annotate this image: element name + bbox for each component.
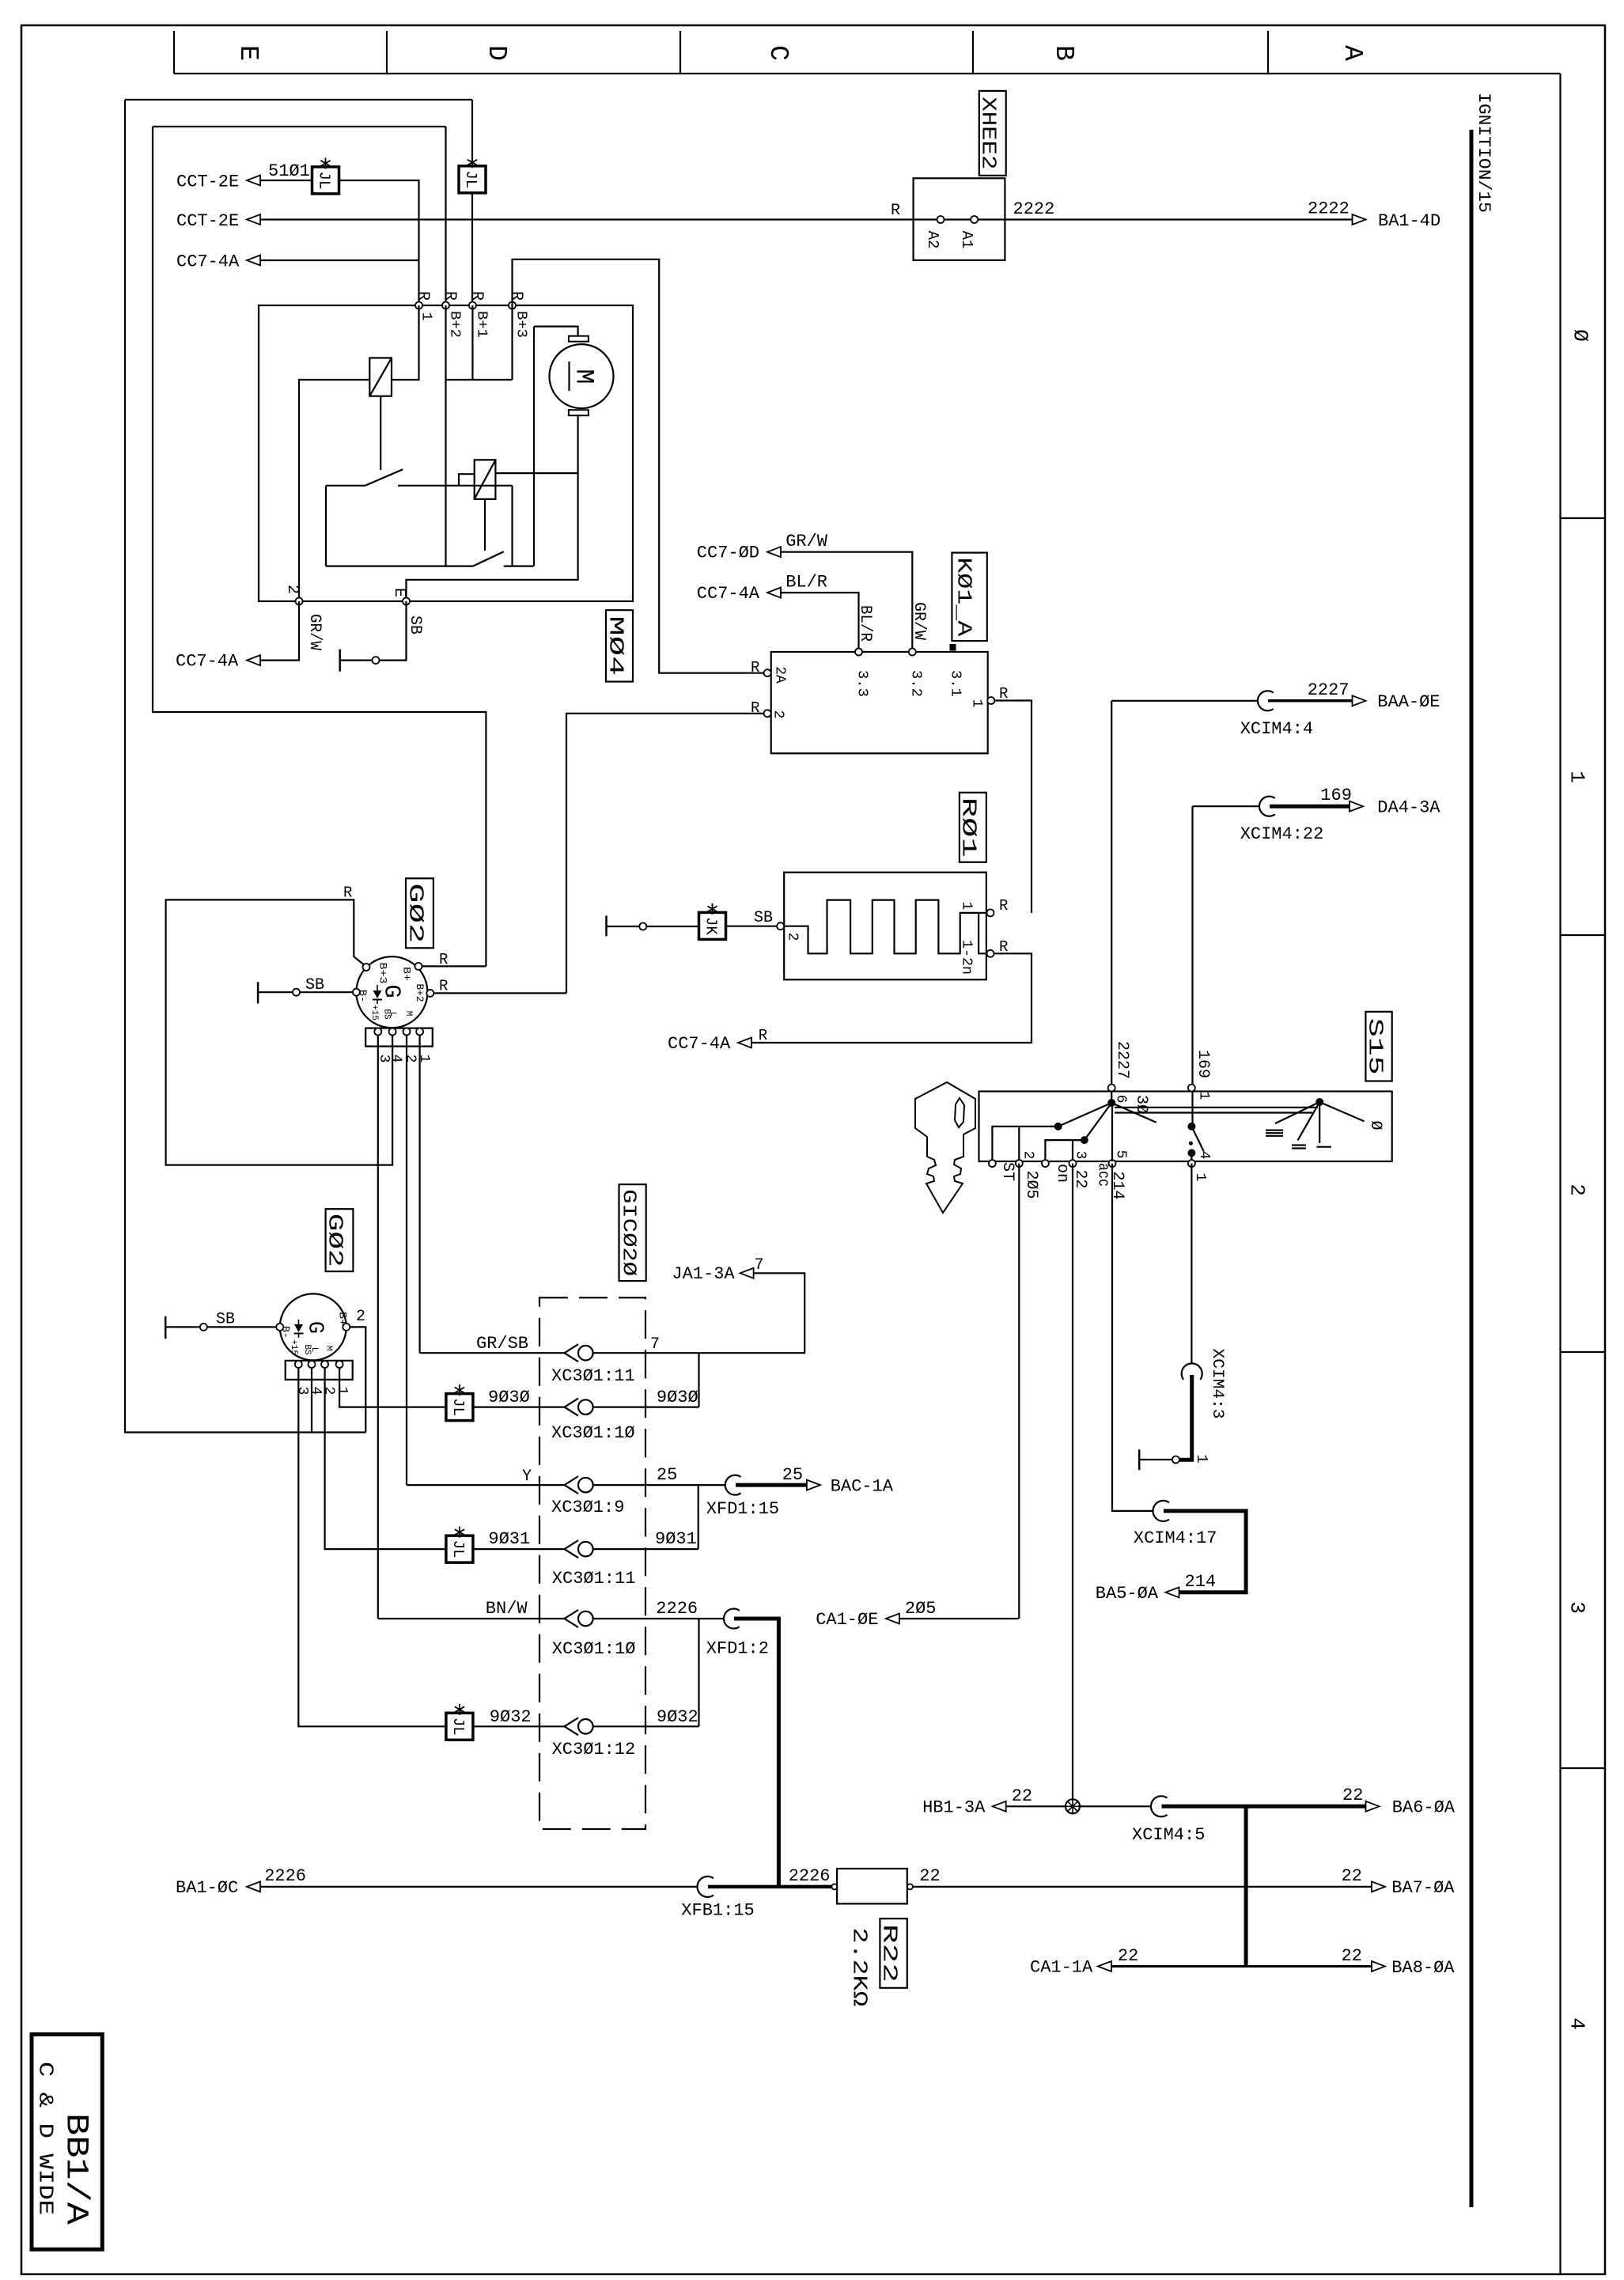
S15 pin 4 <box>1188 1160 1195 1167</box>
svg-text:ST: ST <box>998 1162 1016 1181</box>
S15 position ray 0 <box>1319 1102 1364 1121</box>
svg-text:CA1-ØE: CA1-ØE <box>816 1610 878 1630</box>
svg-text:M: M <box>403 1011 413 1017</box>
relay K01_A label box <box>952 553 986 642</box>
K01_A pin 2 <box>764 710 771 717</box>
svg-text:2222: 2222 <box>1308 199 1350 219</box>
wire 2226 out to XFD1:2 <box>593 1618 724 1619</box>
svg-text:2: 2 <box>356 1308 365 1326</box>
svg-text:XFD1:15: XFD1:15 <box>706 1499 779 1519</box>
svg-text:BA7-ØA: BA7-ØA <box>1391 1878 1455 1898</box>
svg-text:2226: 2226 <box>264 1866 306 1886</box>
svg-text:4: 4 <box>1196 1151 1212 1160</box>
svg-text:JL: JL <box>316 171 333 189</box>
svg-text:B+: B+ <box>400 967 412 981</box>
connector XCIM4:22 <box>1259 797 1275 816</box>
G02 lower pin1 wire to 9030 <box>339 1368 446 1407</box>
svg-text:22: 22 <box>1342 1866 1362 1886</box>
svg-text:B+2: B+2 <box>447 311 463 338</box>
arrow BA1-4D <box>1353 214 1366 225</box>
wire JL1 out to node R1 <box>339 180 419 305</box>
svg-text:JK: JK <box>702 917 720 935</box>
junction crossed circle <box>1066 1799 1080 1813</box>
wire 9030 out <box>593 1406 699 1407</box>
connector XCIM4:5 <box>1151 1796 1168 1816</box>
wire box2: B+2 feed loop <box>445 127 446 305</box>
alternator G02 upper label box <box>406 878 433 948</box>
svg-text:SB: SB <box>754 909 773 927</box>
S15 wiper ray to ST contact <box>1058 1103 1112 1127</box>
wire BN/W into connector <box>378 1618 565 1619</box>
wire 214 down from S15 to XCIM4:17 <box>1112 1164 1153 1511</box>
wire 9031 junction up to 25 wire <box>698 1485 699 1549</box>
G02 lower SB ground wire <box>276 1324 283 1331</box>
ground bar at G02 lower <box>165 1316 167 1339</box>
title block BB1/A <box>32 2035 102 2250</box>
bus IGNITION/15 thick line <box>1470 130 1474 2207</box>
svg-text:M: M <box>569 369 598 384</box>
svg-text:XCIM4:22: XCIM4:22 <box>1240 824 1324 844</box>
svg-text:+15: +15 <box>369 1005 379 1021</box>
wire 9031 out <box>593 1548 698 1550</box>
svg-text:S15: S15 <box>1364 1018 1387 1075</box>
svg-text:2Ø5: 2Ø5 <box>905 1599 937 1619</box>
K01_A pin 3.3 <box>855 649 862 656</box>
R01 pin 1-2n <box>987 950 994 957</box>
connector XHEE2 body <box>914 178 1005 260</box>
svg-text:BL/R: BL/R <box>856 605 874 642</box>
svg-text:IGNITION/15: IGNITION/15 <box>1474 93 1493 213</box>
wire 2222 to BA1-4D <box>1005 218 1352 220</box>
svg-text:XFB1:15: XFB1:15 <box>681 1901 754 1921</box>
motor M circle <box>550 344 614 408</box>
S15 position ray II <box>1298 1102 1320 1140</box>
wire 2227 down from XCIM4:4 to pin 6 <box>1111 701 1112 1103</box>
wire coil to node 2 <box>299 380 369 601</box>
switch S15 label box <box>1365 1012 1391 1081</box>
right row strip <box>1559 74 1561 2274</box>
svg-text:M: M <box>324 1346 333 1351</box>
svg-text:XCIM4:5: XCIM4:5 <box>1132 1825 1205 1845</box>
svg-text:2: 2 <box>770 710 786 719</box>
svg-text:BAC-1A: BAC-1A <box>831 1477 894 1497</box>
G02 lower pin block <box>286 1361 353 1380</box>
wire K01 pin1 to R01 pin1 <box>994 701 1032 913</box>
svg-text:7: 7 <box>755 1256 764 1274</box>
wire 22 to BA7-0A <box>913 1886 1372 1888</box>
M04 node 2 <box>296 598 303 605</box>
svg-text:9Ø32: 9Ø32 <box>657 1707 698 1727</box>
svg-text:CC7-4A: CC7-4A <box>176 652 239 672</box>
svg-text:25: 25 <box>782 1465 803 1485</box>
svg-text:+15: +15 <box>289 1339 298 1355</box>
svg-text:22: 22 <box>919 1866 940 1886</box>
svg-text:DA4-3A: DA4-3A <box>1377 798 1440 818</box>
S15 position ray III <box>1275 1102 1319 1123</box>
svg-text:R: R <box>414 291 432 301</box>
wire 9031 JL to connector <box>473 1548 565 1550</box>
ignition key symbol <box>915 1082 975 1213</box>
switch S2 blade <box>473 551 504 566</box>
svg-text:2: 2 <box>403 1055 418 1063</box>
wire 214 bold to BA5-0A <box>1164 1511 1246 1593</box>
resistor R22 label box <box>880 1918 907 1988</box>
S15 pin 6 <box>1108 1085 1115 1092</box>
wire bold XFB1:15 to R22 <box>708 1885 832 1889</box>
ground bar at G02 upper <box>257 982 259 1003</box>
coil K1 actuator stem <box>380 396 381 470</box>
svg-text:C & D WIDE: C & D WIDE <box>34 2062 58 2215</box>
svg-text:BAA-ØE: BAA-ØE <box>1377 692 1440 712</box>
wire K01 pin2 to G02 B+2 <box>566 714 764 994</box>
resistor R22 body <box>831 1884 837 1889</box>
G02 upper pin1 wire to GR/SB <box>418 1036 420 1354</box>
svg-text:XCIM4:3: XCIM4:3 <box>1208 1349 1226 1419</box>
svg-text:Ø: Ø <box>1366 1120 1384 1130</box>
svg-text:CCT-2E: CCT-2E <box>176 172 239 192</box>
K01_A pin 2A <box>764 669 771 676</box>
svg-text:5: 5 <box>1113 1150 1129 1159</box>
fuse JL 9030 <box>446 1394 473 1421</box>
svg-text:169: 169 <box>1320 786 1352 805</box>
K01_A label attach mark <box>950 645 956 651</box>
S15 ST contact wire <box>992 1127 1058 1161</box>
svg-text:R: R <box>343 884 352 902</box>
wire 22 to BA8-0A <box>1111 1965 1372 1968</box>
fuse JL2 <box>459 166 486 193</box>
wire GR/SB into connector <box>420 1352 565 1354</box>
M04 B+2 column <box>445 305 446 566</box>
K01_A pin 1 <box>987 697 994 704</box>
connector XFD1:2 <box>724 1609 740 1629</box>
wire 2226 bold down to R22 line <box>734 1619 778 1887</box>
arrow DA4-3A <box>1350 801 1363 812</box>
svg-text:1: 1 <box>1192 1173 1208 1182</box>
wire motor bottom to node E <box>407 415 578 601</box>
wire CCT-2E 1 to fuse JL1 <box>247 176 260 186</box>
M04 node R1 <box>415 302 422 309</box>
motor brush bottom <box>569 410 589 415</box>
svg-text:E: E <box>233 45 263 61</box>
S15 205 contact drop <box>1018 1127 1020 1161</box>
svg-text:22: 22 <box>1342 1786 1363 1805</box>
component M04 box <box>259 305 633 601</box>
arrow BAC-1A <box>807 1480 820 1490</box>
svg-text:1: 1 <box>959 902 975 911</box>
instrument group GIC020 dashed box <box>539 1297 645 1829</box>
svg-text:R: R <box>439 951 448 968</box>
G02 lower pin3 wire to 9032 <box>298 1368 445 1726</box>
svg-text:BB1/A: BB1/A <box>58 2113 93 2225</box>
svg-text:GR/SB: GR/SB <box>476 1334 528 1354</box>
svg-text:22: 22 <box>1118 1946 1138 1966</box>
svg-text:2227: 2227 <box>1113 1041 1131 1079</box>
G02 pin B- to SB ground <box>353 989 360 996</box>
R01 pin 2 <box>777 922 784 930</box>
svg-text:L: L <box>309 1347 319 1353</box>
svg-text:R: R <box>999 897 1008 915</box>
svg-text:BL/R: BL/R <box>786 573 827 593</box>
wire CC7-4A 1 to node R1 column <box>247 256 260 266</box>
ground bar at JK <box>605 915 608 936</box>
svg-text:BA5-ØA: BA5-ØA <box>1096 1584 1159 1604</box>
XHEE2 pin A1 <box>971 216 978 223</box>
svg-text:BN/W: BN/W <box>486 1599 528 1619</box>
svg-text:2: 2 <box>1565 1184 1589 1196</box>
svg-text:9Ø31: 9Ø31 <box>655 1529 697 1549</box>
svg-text:2222: 2222 <box>1013 199 1055 219</box>
connector XC301:11 9031 <box>565 1540 579 1558</box>
R01 tap link <box>979 913 986 953</box>
S15 mechanical link lines <box>1115 1107 1318 1108</box>
G02 pin B+ wire <box>415 963 422 970</box>
G02 lower diode symbol <box>294 1324 303 1332</box>
svg-text:XC3Ø1:12: XC3Ø1:12 <box>552 1740 636 1759</box>
svg-text:4: 4 <box>1565 2017 1589 2030</box>
coil K2 actuator stem <box>484 499 486 551</box>
svg-text:3.3: 3.3 <box>854 670 870 697</box>
svg-text:1: 1 <box>1193 1454 1210 1463</box>
svg-text:2Ø5: 2Ø5 <box>1022 1171 1040 1199</box>
M04 node E <box>403 598 410 605</box>
svg-text:9Ø32: 9Ø32 <box>490 1707 532 1727</box>
svg-text:BA1-4D: BA1-4D <box>1378 211 1440 231</box>
wire 1 down to XCIM4:3 <box>1191 1164 1192 1364</box>
svg-text:3.1: 3.1 <box>948 670 963 697</box>
resistor R01 body <box>784 873 986 980</box>
fuse JL 9031 <box>446 1536 473 1562</box>
svg-text:XC3Ø1:9: XC3Ø1:9 <box>551 1498 624 1517</box>
GIC020 label box <box>619 1184 646 1281</box>
S15 pin 214 <box>1109 1160 1116 1167</box>
S15 wiper pivot <box>1107 1099 1115 1107</box>
wire 25 bold to BAC-1A <box>736 1483 807 1487</box>
S15 pin 4 contact lower <box>1187 1149 1195 1157</box>
svg-text:25: 25 <box>657 1465 677 1485</box>
wire BL/R to CC7-4A <box>780 593 858 652</box>
svg-text:XC3Ø1:1Ø: XC3Ø1:1Ø <box>552 1639 636 1659</box>
arrow BA7-0A <box>1372 1881 1385 1892</box>
relay K01_A body <box>771 652 988 753</box>
svg-text:2: 2 <box>1020 1151 1036 1160</box>
connector XC301:11 GR/SB <box>565 1344 579 1362</box>
svg-text:2226: 2226 <box>656 1599 698 1619</box>
alternator G02 lower circle <box>280 1293 346 1360</box>
svg-text:CC7-ØD: CC7-ØD <box>697 543 759 563</box>
svg-text:BA6-ØA: BA6-ØA <box>1392 1798 1456 1818</box>
wire 9032 junction up to 2226 wire <box>698 1619 699 1726</box>
K01_A pin 3.2 <box>909 649 916 656</box>
svg-text:3Ø: 3Ø <box>1132 1095 1150 1114</box>
wire 205 from S15 <box>899 1618 1019 1619</box>
fuse JL1 <box>312 167 339 194</box>
wire 2227 to XCIM4:4 <box>1111 700 1258 702</box>
wire 9030 JL to connector <box>473 1406 565 1407</box>
arrow BA5-0A <box>1166 1587 1179 1597</box>
svg-text:R: R <box>891 202 900 220</box>
svg-text:GR/W: GR/W <box>786 532 828 551</box>
svg-text:JL: JL <box>449 1718 467 1736</box>
S15 pin on <box>1042 1160 1049 1167</box>
wire R1 to coil <box>392 305 419 380</box>
svg-text:XC3Ø1:1Ø: XC3Ø1:1Ø <box>551 1423 635 1443</box>
svg-text:R: R <box>441 291 459 301</box>
ground bar at XCIM4:3 <box>1138 1449 1141 1470</box>
connector XFB1:15 <box>697 1877 714 1897</box>
svg-text:22: 22 <box>1071 1169 1089 1188</box>
fuse JK <box>699 912 726 939</box>
M04 node B+1 <box>469 302 476 309</box>
svg-text:GR/W: GR/W <box>305 614 324 650</box>
svg-text:GR/W: GR/W <box>910 602 928 640</box>
svg-text:22: 22 <box>1342 1946 1362 1966</box>
svg-text:A2: A2 <box>924 231 941 249</box>
wire HB1-3A to junction <box>1006 1805 1066 1807</box>
svg-text:JL: JL <box>449 1540 467 1559</box>
connector XCIM4:17 <box>1153 1501 1169 1521</box>
svg-text:G: G <box>379 984 405 998</box>
connector XFD1:15 <box>725 1475 741 1495</box>
svg-text:9Ø31: 9Ø31 <box>488 1529 530 1549</box>
wire XCIM4:3 bold to ground <box>1179 1375 1192 1460</box>
svg-text:MØ4: MØ4 <box>604 615 628 676</box>
svg-text:B+1: B+1 <box>474 311 490 338</box>
svg-text:R: R <box>751 659 759 676</box>
wire junction to XCIM4:5 <box>1080 1805 1152 1807</box>
connector XC301:12 9032 <box>565 1718 579 1735</box>
svg-text:R: R <box>439 978 448 995</box>
svg-text:D: D <box>482 45 511 61</box>
relay coil K1 in M04 <box>369 358 392 396</box>
svg-text:1: 1 <box>334 1387 350 1396</box>
svg-text:214: 214 <box>1185 1572 1217 1592</box>
svg-text:3.2: 3.2 <box>908 670 924 697</box>
wire CCT-2E 2 long feed to XHEE2 <box>247 214 260 225</box>
svg-text:JL: JL <box>449 1398 467 1416</box>
svg-text:169: 169 <box>1194 1050 1212 1078</box>
svg-text:2.2KΩ: 2.2KΩ <box>848 1928 872 2007</box>
svg-text:RØ1: RØ1 <box>957 797 981 858</box>
svg-text:R: R <box>759 1027 767 1044</box>
svg-text:B+2: B+2 <box>414 984 426 1002</box>
switch S2 left contact <box>326 565 473 566</box>
S15 position pivot <box>1315 1098 1323 1106</box>
svg-text:SB: SB <box>216 1311 235 1329</box>
wire node E to ground <box>380 601 407 661</box>
S15 position ray I <box>1319 1102 1320 1143</box>
switch S1 left contact <box>326 485 365 487</box>
svg-text:XHEE2: XHEE2 <box>977 97 1001 169</box>
wire K01 pin 2A to node B+3 <box>513 259 764 673</box>
alternator G02 upper circle <box>356 956 427 1028</box>
wire 22 bold to BA6-0A <box>1162 1805 1366 1808</box>
wire 22 down from S15 to junction <box>1072 1164 1073 1807</box>
svg-text:C: C <box>763 45 793 61</box>
svg-text:9Ø3Ø: 9Ø3Ø <box>657 1388 698 1407</box>
G02 lower pin 2 wire <box>343 1324 350 1331</box>
svg-text:on: on <box>1053 1164 1071 1183</box>
S15 wiper ray to on contact <box>1085 1103 1111 1140</box>
svg-text:CCT-2E: CCT-2E <box>176 211 239 231</box>
wire JK ground <box>646 926 698 927</box>
svg-text:CC7-4A: CC7-4A <box>668 1034 731 1054</box>
svg-text:22: 22 <box>1012 1786 1032 1806</box>
wire 2226 to XFB1:15 <box>260 1886 698 1888</box>
S15 214 column <box>1111 1103 1113 1161</box>
svg-text:XC3Ø1:11: XC3Ø1:11 <box>552 1569 636 1589</box>
svg-text:2: 2 <box>785 933 801 941</box>
svg-text:CA1-1A: CA1-1A <box>1030 1958 1093 1978</box>
wire 9030 junction up to 7 wire <box>698 1353 699 1407</box>
svg-text:B+3: B+3 <box>513 311 529 338</box>
svg-text:A: A <box>1338 45 1367 61</box>
svg-text:GØ2: GØ2 <box>404 883 428 943</box>
svg-text:4: 4 <box>388 1055 403 1063</box>
svg-text:XFD1:2: XFD1:2 <box>706 1639 769 1659</box>
S15 pin ST <box>989 1160 996 1167</box>
wire 22 bold branch down <box>1244 1806 1248 1966</box>
wire 205 down from S15 to CA1-0E <box>1018 1164 1020 1619</box>
arrow BAA-0E <box>1353 695 1366 706</box>
svg-text:SB: SB <box>305 976 324 994</box>
svg-text:7: 7 <box>650 1335 660 1354</box>
svg-text:2A: 2A <box>772 666 788 684</box>
R01 heater element <box>784 900 986 954</box>
arrow BA8-0A <box>1372 1961 1385 1971</box>
wire motor top <box>534 327 578 336</box>
svg-text:Y: Y <box>522 1468 532 1486</box>
M04 node B+2 <box>442 302 449 309</box>
connector XC301:9 Y <box>565 1476 579 1494</box>
svg-text:R: R <box>468 291 486 301</box>
svg-text:JL: JL <box>462 170 479 188</box>
svg-text:CC7-4A: CC7-4A <box>176 252 240 272</box>
wire 9032 JL to connector <box>473 1725 565 1727</box>
svg-text:JA1-3A: JA1-3A <box>672 1264 735 1284</box>
wire S1 left drop <box>325 486 327 566</box>
svg-text:1: 1 <box>1196 1092 1212 1100</box>
S15 wiper blade to 30 <box>1111 1103 1156 1123</box>
svg-text:A1: A1 <box>958 231 975 249</box>
M04 label box <box>606 610 633 681</box>
svg-text:2: 2 <box>283 585 301 594</box>
wire 2227 bold to BAA-0E <box>1268 699 1353 703</box>
switch S2 right contact <box>504 565 534 566</box>
svg-text:1: 1 <box>418 312 434 321</box>
G02 upper pin3 wire to BN/W <box>377 1036 379 1619</box>
connector XC301:10 9030 <box>565 1399 579 1416</box>
wire 169 down from XCIM4:22 to pin 1 <box>1191 806 1193 1127</box>
relay coil K2 in M04 <box>475 460 496 499</box>
wire GR/W to CC7-0D <box>780 552 912 652</box>
S15 pin 22 <box>1069 1160 1077 1167</box>
ground bar at M04 <box>339 650 341 672</box>
svg-text:1: 1 <box>969 699 985 708</box>
svg-text:SB: SB <box>406 615 424 634</box>
svg-text:E: E <box>390 588 408 597</box>
svg-text:B: B <box>1049 45 1078 61</box>
svg-text:3: 3 <box>1073 1151 1088 1160</box>
svg-text:GØ2: GØ2 <box>324 1214 347 1267</box>
wire R01 1-2n return to CC7-4A <box>751 953 1032 1043</box>
XHEE2 pin A2 <box>937 216 944 223</box>
G02 upper pin2 wire to Y <box>406 1036 407 1486</box>
switch S1 blade <box>365 469 403 486</box>
R01 pin 1 <box>987 909 994 916</box>
svg-text:GICØ2Ø: GICØ2Ø <box>617 1189 638 1276</box>
svg-text:R22: R22 <box>878 1924 902 1983</box>
fuse JL 9032 <box>446 1713 473 1740</box>
